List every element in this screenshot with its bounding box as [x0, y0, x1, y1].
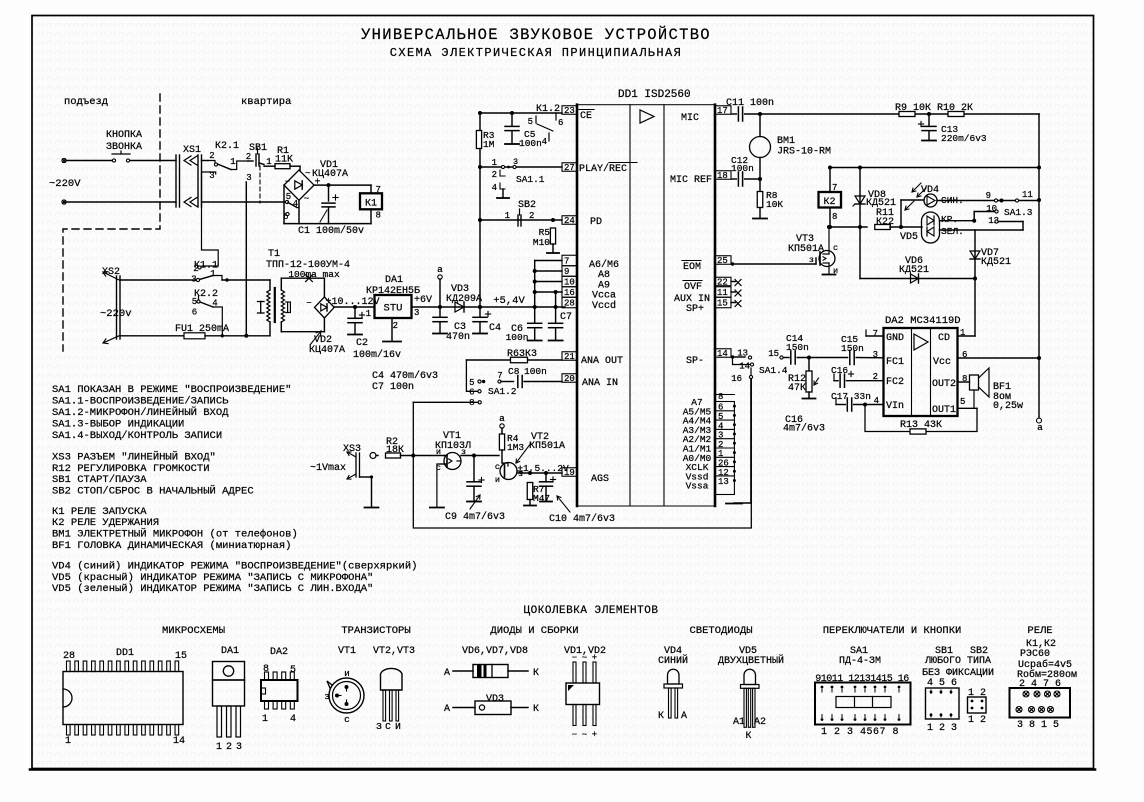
- svg-text:SA1.4: SA1.4: [759, 365, 788, 376]
- svg-text:5: 5: [960, 397, 965, 407]
- svg-text:DA2 MC34119D: DA2 MC34119D: [885, 315, 961, 327]
- svg-text:КД209А: КД209А: [446, 294, 482, 305]
- svg-text:SA1.1: SA1.1: [516, 174, 545, 185]
- svg-text:СВЕТОДИОДЫ: СВЕТОДИОДЫ: [689, 625, 752, 637]
- svg-text:К: К: [533, 704, 539, 715]
- svg-text:1М: 1М: [483, 139, 495, 150]
- svg-text:PLAY/REC: PLAY/REC: [579, 163, 627, 175]
- svg-text:и: и: [436, 447, 441, 457]
- svg-text:2: 2: [193, 264, 198, 274]
- svg-text:100n: 100n: [524, 366, 547, 377]
- svg-text:А: А: [681, 711, 687, 722]
- svg-text:470n: 470n: [446, 332, 470, 343]
- svg-text:2: 2: [209, 151, 214, 161]
- svg-text:16: 16: [731, 374, 742, 384]
- svg-text:8: 8: [718, 392, 723, 402]
- svg-text:SB1 СТАРТ/ПАУЗА: SB1 СТАРТ/ПАУЗА: [52, 474, 147, 486]
- svg-text:SB2 СТОП/СБРОС В НАЧАЛЬНЫЙ АДР: SB2 СТОП/СБРОС В НАЧАЛЬНЫЙ АДРЕС: [52, 484, 254, 498]
- svg-text:C2: C2: [356, 338, 368, 349]
- svg-text:OUT2: OUT2: [932, 379, 956, 390]
- svg-text:К2: К2: [823, 197, 835, 208]
- svg-text:13: 13: [737, 349, 748, 359]
- svg-text:VD6,VD7,VD8: VD6,VD7,VD8: [462, 646, 528, 657]
- svg-text:C7: C7: [560, 312, 572, 323]
- svg-text:КНОПКА: КНОПКА: [106, 130, 142, 141]
- svg-text:3: 3: [246, 173, 251, 183]
- svg-text:SA1.3: SA1.3: [1004, 207, 1033, 218]
- svg-text:BF1 ГОЛОВКА ДИНАМИЧЕСКАЯ (мини: BF1 ГОЛОВКА ДИНАМИЧЕСКАЯ (миниатюрная): [52, 540, 291, 552]
- svg-text:SP+: SP+: [686, 304, 704, 315]
- svg-text:BM1 ЭЛЕКТРЕТНЫЙ МИКРОФОН (от т: BM1 ЭЛЕКТРЕТНЫЙ МИКРОФОН (от телефонов): [52, 527, 298, 541]
- svg-text:SA1.2-МИКРОФОН/ЛИНЕЙНЫЙ ВХОД: SA1.2-МИКРОФОН/ЛИНЕЙНЫЙ ВХОД: [52, 405, 229, 419]
- svg-text:150n: 150n: [841, 343, 864, 354]
- svg-text:К: К: [533, 668, 539, 679]
- svg-text:УНИВЕРСАЛЬНОЕ ЗВУКОВОЕ УСТРОЙС: УНИВЕРСАЛЬНОЕ ЗВУКОВОЕ УСТРОЙСТВО: [361, 26, 711, 44]
- svg-text:~: ~: [305, 169, 310, 179]
- svg-text:МИКРОСХЕМЫ: МИКРОСХЕМЫ: [162, 625, 225, 637]
- svg-text:К1: К1: [365, 199, 377, 210]
- svg-text:1М3: 1М3: [507, 442, 524, 453]
- svg-text:3 8 1 5: 3 8 1 5: [1017, 720, 1059, 731]
- svg-text:А: А: [444, 704, 450, 715]
- svg-text:EOM: EOM: [683, 262, 701, 273]
- svg-text:6: 6: [192, 308, 197, 318]
- svg-text:27: 27: [564, 163, 575, 173]
- svg-text:4: 4: [542, 137, 547, 147]
- svg-text:1: 1: [262, 714, 268, 725]
- svg-text:с: с: [495, 462, 500, 472]
- svg-text:РЕЛЕ: РЕЛЕ: [1027, 625, 1052, 637]
- svg-text:А1: А1: [733, 717, 745, 728]
- svg-text:КЦ407А: КЦ407А: [312, 169, 348, 180]
- svg-text:FC2: FC2: [886, 377, 904, 388]
- svg-text:1 2 3: 1 2 3: [927, 723, 957, 734]
- svg-text:15: 15: [717, 299, 728, 309]
- svg-text:−: −: [572, 730, 577, 740]
- svg-text:FU1 250mA: FU1 250mA: [175, 324, 229, 335]
- svg-text:C7 100n: C7 100n: [372, 382, 414, 393]
- svg-text:3: 3: [236, 742, 242, 753]
- svg-text:+: +: [592, 730, 597, 740]
- svg-text:ДИОДЫ И СБОРКИ: ДИОДЫ И СБОРКИ: [490, 625, 578, 637]
- svg-text:8: 8: [832, 212, 837, 222]
- svg-text:ДВУХЦВЕТНЫЙ: ДВУХЦВЕТНЫЙ: [718, 653, 784, 667]
- svg-text:1: 1: [366, 309, 371, 319]
- svg-text:1: 1: [210, 269, 215, 279]
- svg-text:21: 21: [564, 352, 575, 362]
- svg-text:ANA IN: ANA IN: [582, 378, 618, 389]
- svg-text:DD1: DD1: [116, 648, 134, 659]
- svg-text:20: 20: [564, 374, 575, 384]
- svg-text:11: 11: [1022, 190, 1033, 200]
- svg-text:СХЕМА ЭЛЕКТРИЧЕСКАЯ ПРИНЦИПИАЛ: СХЕМА ЭЛЕКТРИЧЕСКАЯ ПРИНЦИПИАЛЬНАЯ: [390, 46, 682, 60]
- svg-text:C11 100n: C11 100n: [726, 98, 774, 109]
- svg-text:13: 13: [718, 477, 729, 487]
- svg-text:28: 28: [63, 651, 75, 662]
- svg-text:К: К: [745, 731, 751, 742]
- svg-text:ПЕРЕКЛЮЧАТЕЛИ И КНОПКИ: ПЕРЕКЛЮЧАТЕЛИ И КНОПКИ: [823, 625, 962, 637]
- svg-text:100n: 100n: [731, 163, 754, 174]
- svg-text:А2: А2: [754, 717, 766, 728]
- svg-text:R13 43К: R13 43К: [900, 420, 942, 431]
- svg-text:3: 3: [414, 308, 419, 318]
- svg-text:2: 2: [393, 321, 398, 331]
- svg-text:1: 1: [65, 736, 71, 747]
- svg-text:DA1: DA1: [385, 275, 403, 286]
- svg-text:8: 8: [376, 211, 381, 221]
- svg-text:ТРАНЗИСТОРЫ: ТРАНЗИСТОРЫ: [341, 625, 410, 637]
- svg-text:220m/6v3: 220m/6v3: [941, 133, 987, 144]
- svg-text:5: 5: [469, 378, 474, 388]
- svg-text:C4: C4: [489, 323, 501, 334]
- svg-text:4: 4: [290, 714, 296, 725]
- svg-text:~220v: ~220v: [100, 308, 132, 320]
- svg-text:Vccd: Vccd: [592, 300, 616, 312]
- svg-text:2: 2: [529, 211, 534, 221]
- svg-text:ANA OUT: ANA OUT: [581, 356, 623, 367]
- svg-text:10К: 10К: [766, 199, 783, 210]
- svg-text:100m/16v: 100m/16v: [353, 349, 401, 361]
- svg-text:2: 2: [226, 742, 232, 753]
- svg-text:1 2 3 4567 8: 1 2 3 4567 8: [821, 727, 899, 738]
- svg-text:STU: STU: [384, 303, 403, 315]
- svg-text:A6/M6: A6/M6: [589, 259, 619, 271]
- svg-text:C10 4m7/6v3: C10 4m7/6v3: [549, 513, 615, 525]
- svg-text:ЛЮБОГО ТИПА: ЛЮБОГО ТИПА: [924, 656, 991, 667]
- svg-text:7: 7: [873, 329, 878, 339]
- svg-text:SA1 ПОКАЗАН В РЕЖИМЕ ʺВОСПРОИЗ: SA1 ПОКАЗАН В РЕЖИМЕ ʺВОСПРОИЗВЕДЕНИЕʺ: [52, 383, 291, 396]
- svg-text:КЦ407А: КЦ407А: [309, 345, 345, 356]
- svg-text:и: и: [344, 668, 350, 679]
- svg-text:4: 4: [492, 183, 497, 193]
- svg-text:с: с: [344, 714, 350, 725]
- svg-text:SA1.1-ВОСПРОИЗВЕДЕНИЕ/ЗАПИСЬ: SA1.1-ВОСПРОИЗВЕДЕНИЕ/ЗАПИСЬ: [52, 396, 229, 408]
- svg-text:DD1 ISD2560: DD1 ISD2560: [618, 89, 691, 101]
- svg-text:SA1.2: SA1.2: [488, 386, 517, 397]
- svg-text:VD4: VD4: [921, 185, 939, 196]
- svg-text:AGS: AGS: [591, 474, 609, 485]
- svg-text:7: 7: [376, 185, 381, 195]
- svg-text:VT1: VT1: [338, 646, 356, 657]
- svg-text:CD: CD: [938, 333, 950, 344]
- svg-text:9: 9: [986, 191, 991, 201]
- svg-text:7: 7: [832, 183, 837, 193]
- svg-text:XS3: XS3: [343, 444, 361, 455]
- svg-text:5: 5: [290, 665, 296, 676]
- svg-text:VIn: VIn: [886, 401, 904, 412]
- svg-text:з: з: [324, 691, 330, 702]
- svg-text:14: 14: [717, 349, 728, 359]
- svg-text:a: a: [1037, 422, 1043, 433]
- svg-text:VD4 (синий) ИНДИКАТОР РЕЖИМА: VD4 (синий) ИНДИКАТОР РЕЖИМА ʺВОСПРОИЗВЕ…: [52, 560, 417, 573]
- svg-text:3: 3: [191, 275, 196, 285]
- svg-text:6: 6: [469, 388, 474, 398]
- svg-text:ПД-4-ЗМ: ПД-4-ЗМ: [839, 656, 881, 667]
- svg-text:15: 15: [175, 651, 187, 662]
- svg-text:А: А: [444, 668, 450, 679]
- svg-text:Vssa: Vssa: [686, 481, 709, 492]
- svg-text:СИНИЙ: СИНИЙ: [658, 653, 688, 667]
- svg-text:C8: C8: [508, 366, 520, 377]
- svg-text:~1Vmax: ~1Vmax: [310, 463, 346, 474]
- svg-text:КР.: КР.: [941, 214, 958, 225]
- svg-text:SA1.4-ВЫХОД/КОНТРОЛЬ ЗАПИСИ: SA1.4-ВЫХОД/КОНТРОЛЬ ЗАПИСИ: [52, 430, 222, 442]
- svg-text:~: ~: [582, 730, 587, 740]
- svg-text:15: 15: [768, 349, 779, 359]
- svg-text:18: 18: [717, 171, 728, 181]
- svg-text:ЗВОНКА: ЗВОНКА: [106, 142, 142, 153]
- svg-text:5: 5: [528, 117, 533, 127]
- svg-text:FC1: FC1: [886, 357, 904, 368]
- svg-text:М10: М10: [533, 237, 550, 248]
- svg-text:К2 РЕЛЕ УДЕРЖАНИЯ: К2 РЕЛЕ УДЕРЖАНИЯ: [52, 517, 159, 529]
- svg-text:подъезд: подъезд: [64, 96, 108, 108]
- svg-text:ЗЕЛ.: ЗЕЛ.: [941, 226, 964, 237]
- svg-text:C9 4m7/6v3: C9 4m7/6v3: [445, 511, 505, 523]
- svg-text:R63К3: R63К3: [507, 349, 537, 360]
- svg-text:и: и: [495, 475, 500, 485]
- svg-text:VD5 (зеленый) ИНДИКАТОР РЕЖИМА: VD5 (зеленый) ИНДИКАТОР РЕЖИМА ʺЗАПИСЬ С…: [52, 582, 373, 595]
- svg-text:К: К: [658, 711, 664, 722]
- svg-text:11K: 11K: [275, 155, 293, 166]
- svg-text:DA2: DA2: [270, 647, 288, 658]
- svg-text:100n: 100n: [519, 138, 542, 149]
- svg-text:+10...12V: +10...12V: [325, 297, 379, 308]
- svg-text:14: 14: [739, 362, 750, 372]
- svg-text:и: и: [833, 266, 838, 276]
- svg-text:С: С: [385, 721, 391, 732]
- svg-text:25: 25: [717, 256, 728, 266]
- svg-text:Т1: Т1: [268, 249, 280, 260]
- svg-text:23: 23: [564, 106, 575, 116]
- svg-text:VT2,VT3: VT2,VT3: [373, 646, 415, 657]
- svg-text:~: ~: [304, 194, 309, 204]
- svg-text:И: И: [395, 721, 401, 732]
- svg-text:КД521: КД521: [899, 265, 929, 276]
- svg-text:MIC: MIC: [681, 113, 699, 124]
- svg-text:SP-: SP-: [686, 356, 704, 367]
- svg-text:З: З: [376, 721, 382, 732]
- svg-text:5: 5: [192, 297, 197, 307]
- svg-text:28: 28: [564, 299, 575, 309]
- svg-text:КД521: КД521: [981, 257, 1011, 268]
- svg-text:1 2: 1 2: [968, 715, 986, 726]
- svg-text:C4 470m/6v3: C4 470m/6v3: [372, 370, 438, 382]
- svg-text:−: −: [306, 299, 311, 309]
- svg-text:18К: 18К: [386, 445, 404, 456]
- svg-text:150n: 150n: [786, 342, 809, 353]
- svg-text:14: 14: [173, 736, 185, 747]
- svg-text:с: с: [436, 463, 441, 473]
- svg-text:VD5: VD5: [900, 232, 918, 243]
- svg-text:CE: CE: [580, 111, 592, 122]
- svg-text:КП501А: КП501А: [788, 244, 824, 255]
- svg-text:OVF: OVF: [684, 282, 702, 293]
- svg-text:0,25w: 0,25w: [993, 401, 1023, 412]
- svg-text:~220V: ~220V: [49, 178, 81, 190]
- svg-text:JRS-10-RM: JRS-10-RM: [777, 147, 831, 158]
- svg-text:OUT1: OUT1: [932, 405, 956, 416]
- svg-text:−: −: [285, 177, 290, 187]
- svg-text:1: 1: [216, 742, 222, 753]
- svg-text:+1,5...2V: +1,5...2V: [517, 463, 569, 474]
- svg-text:6: 6: [558, 118, 563, 128]
- svg-text:a: a: [499, 413, 505, 424]
- svg-text:1: 1: [492, 158, 497, 168]
- svg-text:3: 3: [873, 350, 878, 360]
- svg-text:100n: 100n: [506, 332, 529, 343]
- svg-text:РЭС60: РЭС60: [1020, 649, 1050, 660]
- svg-text:XS3 РАЗЪЕМ ʺЛИНЕЙНЫЙ ВХОДʺ: XS3 РАЗЪЕМ ʺЛИНЕЙНЫЙ ВХОДʺ: [52, 450, 216, 464]
- svg-text:ЦОКОЛЕВКА ЭЛЕМЕНТОВ: ЦОКОЛЕВКА ЭЛЕМЕНТОВ: [524, 605, 659, 617]
- svg-text:Vcc: Vcc: [933, 357, 951, 368]
- svg-text:+5,4V: +5,4V: [493, 295, 525, 307]
- svg-text:24: 24: [564, 216, 575, 226]
- svg-text:КП501А: КП501А: [529, 441, 565, 452]
- svg-text:К2.1: К2.1: [215, 141, 239, 152]
- svg-text:47К: 47К: [788, 383, 806, 394]
- svg-text:a: a: [437, 264, 443, 275]
- svg-text:+6V: +6V: [414, 295, 432, 306]
- svg-text:MIC REF: MIC REF: [670, 175, 712, 186]
- svg-text:8: 8: [263, 664, 269, 675]
- svg-text:SB2: SB2: [518, 200, 536, 211]
- svg-text:квартира: квартира: [241, 96, 291, 108]
- svg-text:2: 2: [492, 170, 497, 180]
- svg-text:C1 100m/50v: C1 100m/50v: [298, 225, 364, 237]
- svg-text:PD: PD: [590, 217, 602, 228]
- svg-text:з: з: [809, 255, 814, 265]
- svg-text:1: 1: [230, 157, 235, 167]
- svg-text:DA1: DA1: [221, 646, 239, 657]
- svg-text:4m7/6v3: 4m7/6v3: [783, 423, 825, 435]
- svg-text:VD3: VD3: [486, 694, 504, 705]
- svg-text:GND: GND: [886, 333, 904, 344]
- svg-text:SA1.3-ВЫБОР ИНДИКАЦИИ: SA1.3-ВЫБОР ИНДИКАЦИИ: [52, 419, 184, 431]
- svg-text:1: 1: [505, 211, 510, 221]
- svg-text:с: с: [833, 243, 838, 253]
- svg-text:BM1: BM1: [777, 136, 795, 147]
